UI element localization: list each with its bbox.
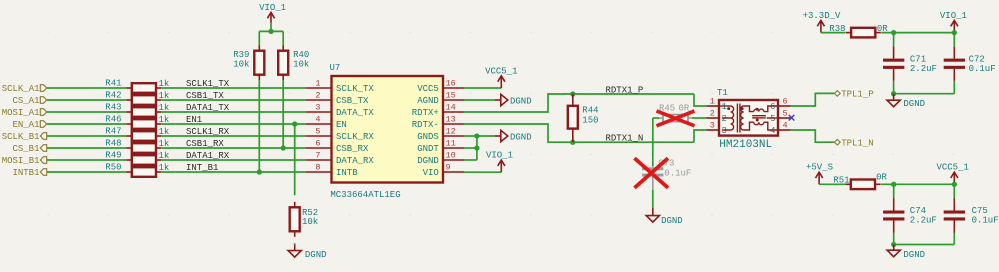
U7 pin 16 (VCC5)	[443, 87, 464, 89]
junction ground rail / DGND	[891, 242, 896, 247]
wire U7 VCC5 to VCC5_1	[464, 87, 501, 89]
wire C71 to ground rail	[893, 81, 895, 94]
svg-text:R38: R38	[829, 24, 845, 34]
wire RDTX1_P to T1 pin1	[694, 94, 707, 106]
svg-text:VCC5: VCC5	[417, 84, 439, 94]
wire U7 GNDT	[464, 147, 477, 149]
svg-text:4: 4	[783, 120, 788, 130]
DNP cross over C73	[635, 158, 669, 188]
wire EN_A1 to R46	[47, 123, 126, 125]
wire GNDS to GNDT to DGND pin10	[476, 136, 478, 160]
capacitor C73 0.1uF (DNP)	[652, 166, 654, 167]
U7 pin 15 (AGND)	[443, 99, 464, 101]
svg-text:VIO: VIO	[423, 168, 439, 178]
svg-text:150: 150	[582, 116, 598, 126]
wire VIO_1 to R39 R40 tops	[259, 30, 283, 32]
resistor R40 10k	[282, 45, 284, 51]
wire +3.3D_V to R38	[821, 32, 845, 34]
wire R38 to VIO_1	[881, 32, 954, 34]
wire U7 AGND to DGND	[464, 99, 495, 101]
svg-text:RDTX-: RDTX-	[412, 120, 439, 130]
T1 pin 3	[707, 129, 720, 131]
resistor R48 1k	[126, 147, 132, 149]
svg-text:0.1uF: 0.1uF	[969, 64, 996, 74]
svg-text:10: 10	[446, 151, 456, 161]
svg-text:SCLK1_TX: SCLK1_TX	[186, 79, 230, 89]
svg-text:10k: 10k	[293, 59, 309, 69]
power VCC5_1 at U7 pin16	[500, 76, 502, 88]
svg-text:SCLK_B1: SCLK_B1	[2, 132, 40, 142]
svg-text:INTB1: INTB1	[12, 168, 39, 178]
junction R38 out / C71	[891, 30, 896, 35]
T1 pin 6	[778, 105, 791, 107]
svg-text:RDTX+: RDTX+	[412, 108, 439, 118]
U7 pin 4 (EN1)	[306, 123, 332, 125]
U7 pin 6 (CSB1_RX)	[306, 147, 332, 149]
power DGND top right	[893, 94, 895, 101]
svg-text:CSB_RX: CSB_RX	[336, 144, 369, 154]
svg-text:EN_A1: EN_A1	[12, 120, 39, 130]
wire CS_A1 to R42	[47, 99, 126, 101]
power DGND below R52	[294, 245, 296, 251]
svg-text:R49: R49	[105, 150, 121, 160]
U7 pin 7 (DATA1_RX)	[306, 159, 332, 161]
junction RDTX1_P at R44 top	[570, 91, 575, 96]
svg-text:DATA1_RX: DATA1_RX	[186, 151, 230, 161]
junction VIO_1 / C72	[952, 30, 957, 35]
svg-text:GNDS: GNDS	[417, 132, 439, 142]
wire U7 DGND pin10	[464, 159, 477, 161]
svg-text:R44: R44	[582, 105, 598, 115]
U7 pin 1 (SCLK1_TX)	[306, 87, 332, 89]
junction ground rail / DGND	[891, 91, 896, 96]
svg-text:T1: T1	[717, 88, 728, 98]
wire R45 right to T1 pin2	[692, 117, 707, 119]
svg-text:CSB1_RX: CSB1_RX	[186, 139, 224, 149]
wire R52 bottom to DGND	[294, 243, 296, 244]
svg-text:+3.3D_V: +3.3D_V	[803, 11, 841, 21]
wire down to C72	[953, 33, 955, 47]
wire MOSI_A1 to R43	[47, 111, 126, 113]
svg-text:EN: EN	[336, 120, 347, 130]
svg-text:5: 5	[783, 108, 788, 118]
wire down to C71	[893, 33, 895, 47]
svg-text:DATA1_TX: DATA1_TX	[186, 103, 230, 113]
wire R43 to U7 pin 3	[162, 111, 306, 113]
svg-text:VIO_1: VIO_1	[486, 151, 513, 161]
power DGND at U7 pin15	[495, 99, 501, 101]
junction RDTX1_N at R44 bottom	[570, 140, 575, 145]
wire down to C74	[893, 184, 895, 198]
svg-text:SCLK_TX: SCLK_TX	[336, 84, 374, 94]
power DGND bottom right	[893, 245, 895, 251]
resistor R41 1k	[126, 87, 132, 89]
U7 pin 5 (SCLK1_RX)	[306, 135, 332, 137]
wire U7 GNDS to DGND	[464, 135, 495, 137]
power VIO_1 at U7 pin9	[500, 160, 502, 172]
wire down to C75	[953, 184, 955, 198]
svg-text:9: 9	[446, 163, 451, 173]
resistor R47 1k	[126, 135, 132, 137]
svg-text:VIO_1: VIO_1	[259, 3, 286, 13]
resistor R46 1k	[126, 123, 132, 125]
wire CS_B1 to R48	[47, 147, 126, 149]
resistor R42 1k	[126, 99, 132, 101]
wire R50 to U7 pin 8	[162, 171, 306, 173]
wire U7 RDTX- to RDTX1_N line	[464, 124, 694, 142]
power +5V_S	[818, 172, 820, 184]
svg-text:1: 1	[710, 96, 715, 106]
svg-text:16: 16	[446, 79, 456, 89]
svg-text:DGND: DGND	[417, 156, 439, 166]
svg-text:DGND: DGND	[510, 96, 532, 106]
T1 pin 5	[778, 117, 791, 119]
DNP cross over R45	[657, 111, 695, 126]
svg-text:14: 14	[446, 103, 456, 113]
svg-text:DGND: DGND	[903, 250, 925, 260]
wire ground rail bottom right	[894, 244, 955, 246]
svg-text:15: 15	[446, 91, 456, 101]
svg-text:DGND: DGND	[661, 216, 683, 226]
svg-text:R47: R47	[105, 126, 121, 136]
svg-text:CS_B1: CS_B1	[12, 144, 39, 154]
U7 pin 13 (RDTX-)	[443, 123, 464, 125]
svg-text:R46: R46	[105, 114, 121, 124]
svg-text:SCLK1_RX: SCLK1_RX	[186, 127, 230, 137]
svg-text:HM2103NL: HM2103NL	[719, 139, 772, 151]
wire R45 left down to C73	[652, 118, 654, 166]
power VIO_1 above R39 R40	[270, 12, 272, 22]
svg-text:R43: R43	[105, 102, 121, 112]
svg-text:TPL1_N: TPL1_N	[841, 138, 873, 148]
junction EN1 to R52	[292, 121, 297, 126]
wire T1 pin6 to TPL1_P	[791, 93, 835, 106]
svg-text:13: 13	[446, 115, 456, 125]
svg-text:0R: 0R	[876, 173, 887, 183]
wire U7 VIO to VIO_1	[464, 171, 501, 173]
resistor R39 10k	[258, 45, 260, 51]
svg-text:2.2uF: 2.2uF	[910, 216, 937, 226]
svg-text:DGND: DGND	[903, 99, 925, 109]
wire T1 pin4 to TPL1_N	[791, 130, 835, 142]
T1 pin 2	[707, 117, 720, 119]
svg-text:R41: R41	[105, 78, 121, 88]
hierarchical label TPL1_P	[834, 91, 840, 97]
svg-text:3: 3	[315, 103, 320, 113]
wire to R39 top	[258, 31, 260, 45]
resistor R50 1k	[126, 171, 132, 173]
U7 pin 3 (DATA1_TX)	[306, 111, 332, 113]
wire SCLK_A1 to R41	[47, 87, 126, 89]
svg-text:3: 3	[710, 120, 715, 130]
svg-text:DGND: DGND	[305, 250, 327, 260]
svg-text:6: 6	[770, 102, 775, 112]
wire to R45 left	[653, 117, 659, 119]
junction VIO_1 node	[268, 29, 273, 34]
transformer T1 HM2103NL body	[719, 100, 778, 136]
T1 internal windings	[719, 104, 778, 133]
svg-text:R51: R51	[833, 176, 849, 186]
junction R51 out / C74	[891, 182, 896, 187]
junction VCC5_1 / C75	[952, 182, 957, 187]
power DGND below C73	[652, 208, 654, 216]
wire R39 bottom to INT_B1 row	[258, 80, 260, 172]
wire C73 to DGND	[652, 190, 654, 208]
svg-text:R42: R42	[105, 90, 121, 100]
svg-text:CS_A1: CS_A1	[12, 96, 39, 106]
svg-text:10k: 10k	[233, 59, 249, 69]
svg-text:R48: R48	[105, 138, 121, 148]
junction GNDT node	[474, 145, 479, 150]
svg-text:0.1uF: 0.1uF	[664, 169, 691, 179]
wire ground rail top right	[894, 93, 955, 95]
svg-text:RDTX1_N: RDTX1_N	[606, 133, 644, 143]
wire EN1 row to R52	[294, 124, 296, 195]
wire VIO_1 riser	[270, 23, 272, 32]
svg-text:CSB1_TX: CSB1_TX	[186, 91, 224, 101]
wire C75 to ground rail	[953, 233, 955, 245]
wire INTB1 to R50	[47, 171, 126, 173]
svg-text:2: 2	[722, 114, 727, 124]
svg-text:R50: R50	[105, 162, 121, 172]
svg-text:INT_B1: INT_B1	[186, 163, 218, 173]
svg-text:VIO_1: VIO_1	[940, 11, 967, 21]
svg-text:11: 11	[446, 139, 456, 149]
U7 pin 8 (INT_B1)	[306, 171, 332, 173]
resistor R38 0R	[846, 32, 852, 34]
svg-text:INTB: INTB	[336, 168, 358, 178]
svg-text:6: 6	[783, 96, 788, 106]
wire MOSI_B1 to R49	[47, 159, 126, 161]
svg-text:U7: U7	[330, 63, 341, 73]
resistor R51 0R	[845, 183, 851, 185]
svg-text:6: 6	[315, 139, 320, 149]
wire R47 to U7 pin 5	[162, 135, 306, 137]
wire R41 to U7 pin 1	[162, 87, 306, 89]
svg-text:GNDT: GNDT	[417, 144, 439, 154]
svg-text:DATA_RX: DATA_RX	[336, 156, 374, 166]
svg-text:1: 1	[315, 79, 320, 89]
svg-text:1: 1	[722, 102, 727, 112]
svg-text:TPL1_P: TPL1_P	[841, 90, 873, 100]
svg-text:RDTX1_P: RDTX1_P	[606, 85, 644, 95]
svg-text:5: 5	[770, 114, 775, 124]
svg-text:+5V_S: +5V_S	[806, 163, 833, 173]
svg-text:8: 8	[315, 163, 320, 173]
svg-text:EN1: EN1	[186, 115, 202, 125]
svg-text:VCC5_1: VCC5_1	[936, 163, 968, 173]
svg-text:2: 2	[710, 108, 715, 118]
svg-text:2.2uF: 2.2uF	[910, 64, 937, 74]
wire R46 to U7 pin 4	[162, 123, 306, 125]
svg-text:MOSI_A1: MOSI_A1	[2, 108, 40, 118]
svg-text:10k: 10k	[302, 217, 318, 227]
power DGND at U7 pin12	[495, 135, 501, 137]
svg-text:12: 12	[446, 127, 456, 137]
wire C72 to ground rail	[953, 81, 955, 94]
svg-text:5: 5	[315, 127, 320, 137]
svg-text:7: 7	[315, 151, 320, 161]
junction R39 to INT_B1	[257, 169, 262, 174]
svg-text:SCLK_A1: SCLK_A1	[2, 84, 40, 94]
U7 pin 12 (GNDS)	[443, 135, 464, 137]
svg-text:4: 4	[315, 115, 320, 125]
svg-text:4: 4	[770, 126, 775, 136]
resistor R44 150	[572, 94, 574, 106]
resistor R45 0R (DNP)	[659, 117, 663, 119]
svg-text:VCC5_1: VCC5_1	[485, 66, 517, 76]
U7 pin 2 (CSB1_TX)	[306, 99, 332, 101]
wire R48 to U7 pin 6	[162, 147, 306, 149]
wire C74 to ground rail	[893, 233, 895, 245]
U7 pin 14 (RDTX+)	[443, 111, 464, 113]
hierarchical label TPL1_N	[834, 139, 840, 145]
wire RDTX1_N to T1 pin3	[694, 130, 707, 142]
wire SCLK_B1 to R47	[47, 135, 126, 137]
svg-text:0.1uF: 0.1uF	[972, 216, 999, 226]
power +3.3D_V	[820, 20, 822, 32]
svg-text:2: 2	[315, 91, 320, 101]
resistor R49 1k	[126, 159, 132, 161]
U7 pin 10 (DGND)	[443, 159, 464, 161]
junction GNDS node	[474, 133, 479, 138]
junction R40 to CSB1_RX	[281, 145, 286, 150]
T1 pin 1	[707, 105, 720, 107]
resistor R43 1k	[126, 111, 132, 113]
op-amp U7 MC33664ATL1EG body	[332, 76, 444, 183]
U7 pin 11 (GNDT)	[443, 147, 464, 149]
power VCC5_1 bottom right	[953, 172, 955, 184]
svg-text:DGND: DGND	[510, 132, 532, 142]
svg-text:MOSI_B1: MOSI_B1	[2, 156, 40, 166]
wire R42 to U7 pin 2	[162, 99, 306, 101]
U7 pin 9 (VIO)	[443, 171, 464, 173]
wire to R40 top	[282, 31, 284, 45]
no-connect X at T1 pin 5	[789, 115, 795, 121]
wire U7 RDTX+ to RDTX1_P line	[464, 94, 694, 112]
svg-text:3: 3	[722, 126, 727, 136]
resistor R52 10k	[294, 202, 296, 208]
svg-text:DATA_TX: DATA_TX	[336, 108, 374, 118]
svg-text:CSB_TX: CSB_TX	[336, 96, 369, 106]
wire R51 to VCC5_1	[881, 183, 954, 185]
wire +5V_S to R51	[819, 183, 845, 185]
svg-text:AGND: AGND	[417, 96, 439, 106]
svg-text:SCLK_RX: SCLK_RX	[336, 132, 374, 142]
wire R40 bottom to CSB1_RX row	[282, 80, 284, 148]
svg-text:MC33664ATL1EG: MC33664ATL1EG	[330, 190, 400, 200]
T1 pin 4	[778, 129, 791, 131]
wire R49 to U7 pin 7	[162, 159, 306, 161]
power VIO_1 top right	[953, 20, 955, 32]
